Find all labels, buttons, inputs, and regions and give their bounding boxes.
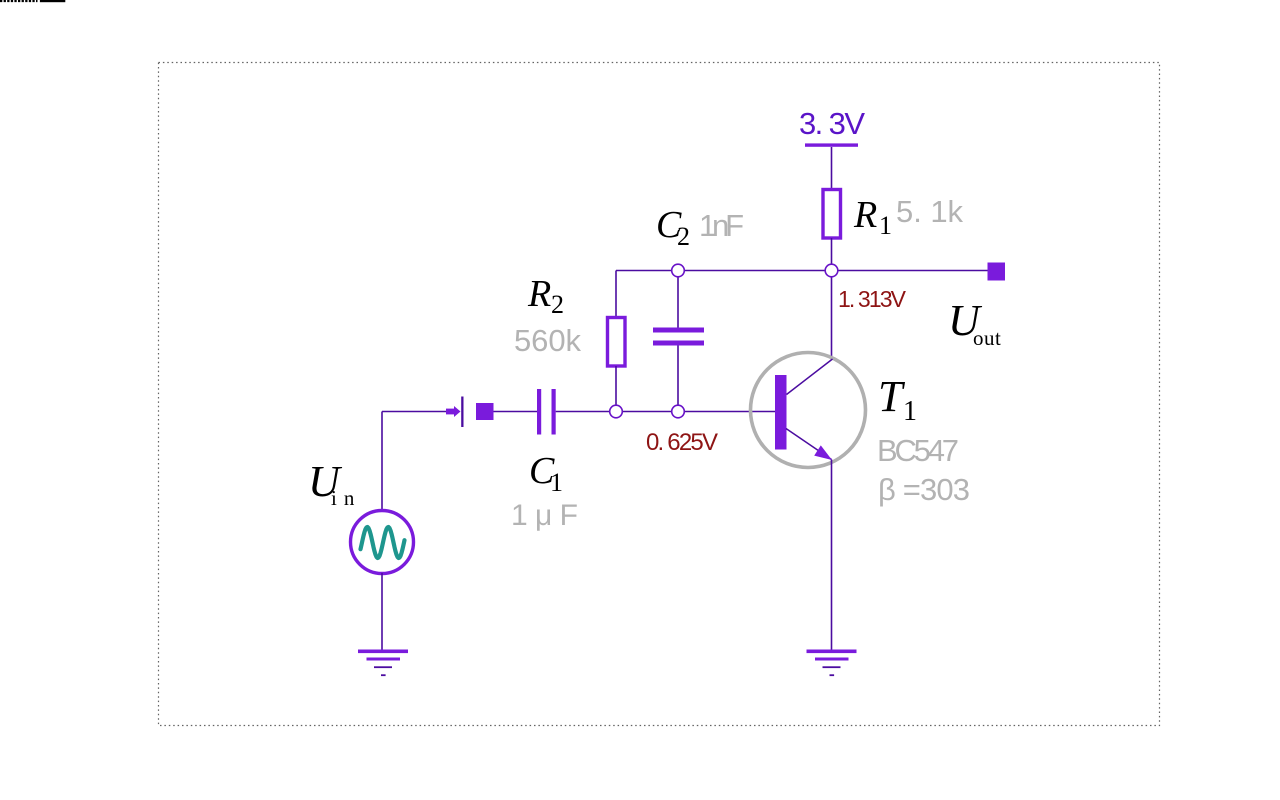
source V1 sine wave (361, 527, 405, 558)
input terminal square (476, 403, 494, 420)
svg-text:R: R (527, 273, 551, 315)
svg-text:T: T (878, 372, 906, 421)
svg-text:5. 1k: 5. 1k (896, 194, 964, 229)
capacitor C2 top plate (653, 328, 704, 333)
wire down to R2 (615, 271, 617, 318)
svg-text:β =303: β =303 (878, 472, 970, 507)
toolbar bar remnant top-left (40, 0, 65, 2)
wire C1 to base rail (556, 411, 775, 413)
ground symbol left (358, 650, 408, 654)
svg-text:0. 625V: 0. 625V (646, 429, 718, 456)
ground symbol right (807, 650, 857, 654)
power rail symbol 3.3V (805, 143, 858, 146)
input port bar (461, 397, 463, 428)
svg-text:1. 313V: 1. 313V (838, 286, 907, 312)
transistor T1 emitter stroke with arrow (786, 429, 832, 460)
toolbar text remnant top-left (0, 0, 38, 2)
svg-text:1: 1 (879, 211, 892, 240)
wire source corner up and right (381, 412, 383, 512)
wire R1 to collector node (831, 238, 833, 270)
schematic sheet dashed border (159, 63, 1160, 726)
resistor R2 body (608, 318, 626, 367)
wire input terminal to C1 (494, 411, 538, 413)
source V1 circle (351, 511, 414, 574)
svg-text:1nF: 1nF (699, 208, 744, 243)
svg-text:2: 2 (677, 222, 690, 251)
resistor R1 body (823, 190, 841, 239)
svg-text:out: out (973, 326, 1001, 350)
svg-text:1: 1 (550, 468, 563, 497)
wire collector node down to transistor (831, 271, 833, 361)
transistor T1 collector stroke (787, 359, 833, 395)
output terminal square (988, 263, 1006, 281)
wire R2 to base rail (615, 366, 617, 412)
svg-text:1: 1 (903, 396, 917, 427)
wire top feedback rail (616, 270, 988, 272)
capacitor C2 bottom plate (653, 341, 704, 346)
node junction base/R2 (610, 405, 623, 418)
svg-text:R: R (853, 194, 877, 236)
wire source to ground (381, 573, 383, 650)
node junction collector/R1/output (825, 264, 838, 277)
node junction feedback/C2 top (672, 264, 685, 277)
transistor T1 body circle (751, 353, 866, 468)
svg-text:560k: 560k (514, 323, 582, 358)
transistor T1 base bar (775, 375, 787, 450)
wire emitter down to ground (831, 460, 833, 651)
wire C2 bottom plate to base rail (677, 346, 679, 412)
wire power rail to R1 (831, 147, 833, 189)
svg-text:3. 3V: 3. 3V (799, 106, 865, 141)
wire feedback node to C2 top plate (677, 271, 679, 329)
svg-text:2: 2 (551, 290, 564, 319)
input port arrow (446, 409, 454, 415)
node junction base/C2 bottom (672, 405, 685, 418)
svg-text:1 μ F: 1 μ F (511, 499, 578, 532)
svg-text:BC547: BC547 (877, 433, 959, 468)
wire input corner to arrow (382, 411, 447, 413)
capacitor C1 right plate (552, 389, 556, 435)
svg-text:in: in (331, 486, 361, 510)
capacitor C1 left plate (537, 389, 541, 435)
